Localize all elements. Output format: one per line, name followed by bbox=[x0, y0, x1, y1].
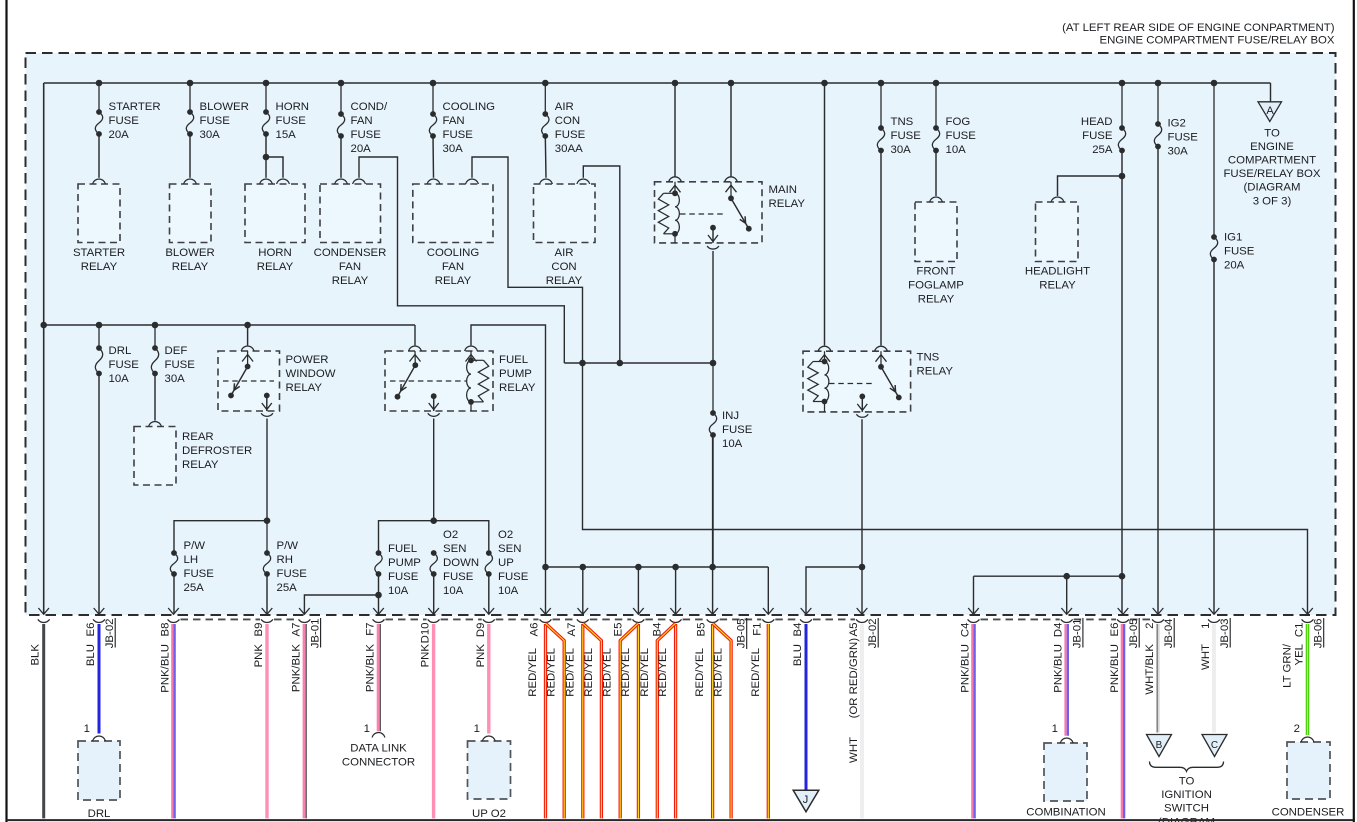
svg-text:UP O2: UP O2 bbox=[472, 808, 506, 820]
svg-text:PNK: PNK bbox=[475, 644, 487, 668]
svg-text:1: 1 bbox=[474, 723, 480, 735]
svg-text:30A: 30A bbox=[443, 143, 464, 155]
svg-text:WHT: WHT bbox=[848, 737, 860, 763]
svg-text:JB-05: JB-05 bbox=[1128, 619, 1140, 649]
svg-text:RED/YEL: RED/YEL bbox=[694, 648, 706, 697]
svg-text:B5: B5 bbox=[696, 623, 708, 637]
svg-text:10A: 10A bbox=[388, 585, 409, 597]
svg-text:FAN: FAN bbox=[443, 115, 465, 127]
svg-text:STARTER: STARTER bbox=[109, 101, 161, 113]
svg-text:TNS: TNS bbox=[891, 116, 914, 128]
svg-text:JB-02: JB-02 bbox=[104, 619, 116, 649]
svg-text:JB-05: JB-05 bbox=[736, 619, 748, 649]
svg-text:1: 1 bbox=[364, 723, 370, 735]
svg-text:25A: 25A bbox=[277, 582, 298, 594]
svg-text:CON: CON bbox=[555, 115, 580, 127]
svg-text:FRONT: FRONT bbox=[916, 265, 955, 277]
svg-text:CONNECTOR: CONNECTOR bbox=[342, 757, 415, 769]
svg-text:3 OF 3): 3 OF 3) bbox=[1253, 195, 1292, 207]
svg-text:DEFROSTER: DEFROSTER bbox=[182, 445, 252, 457]
svg-text:HEAD: HEAD bbox=[1081, 116, 1113, 128]
svg-text:DRL: DRL bbox=[109, 345, 132, 357]
svg-text:ENGINE COMPARTMENT FUSE/RELAY: ENGINE COMPARTMENT FUSE/RELAY BOX bbox=[1099, 35, 1334, 47]
svg-text:A7: A7 bbox=[290, 623, 302, 637]
svg-text:REAR: REAR bbox=[182, 431, 214, 443]
svg-text:RED/YEL: RED/YEL bbox=[657, 648, 669, 697]
svg-text:RELAY: RELAY bbox=[182, 459, 219, 471]
svg-text:(OR RED/GRN): (OR RED/GRN) bbox=[848, 638, 860, 719]
svg-text:B4: B4 bbox=[792, 623, 804, 637]
svg-text:10A: 10A bbox=[443, 585, 464, 597]
svg-text:TO: TO bbox=[1179, 776, 1195, 788]
svg-text:COMBINATION: COMBINATION bbox=[1026, 807, 1106, 819]
svg-text:PNK: PNK bbox=[420, 644, 432, 668]
svg-text:FUEL: FUEL bbox=[499, 354, 528, 366]
svg-text:SEN: SEN bbox=[498, 543, 521, 555]
svg-text:30A: 30A bbox=[200, 129, 221, 141]
svg-text:RED/YEL: RED/YEL bbox=[750, 648, 762, 697]
svg-text:RELAY: RELAY bbox=[546, 275, 583, 287]
svg-text:FUSE: FUSE bbox=[165, 359, 196, 371]
svg-text:RELAY: RELAY bbox=[1039, 279, 1076, 291]
svg-text:D10: D10 bbox=[420, 623, 432, 644]
svg-text:FAN: FAN bbox=[351, 115, 373, 127]
svg-text:COMPARTMENT: COMPARTMENT bbox=[1228, 155, 1316, 167]
svg-text:2: 2 bbox=[1294, 723, 1300, 735]
svg-text:RED/YEL: RED/YEL bbox=[602, 648, 614, 697]
svg-text:RELAY: RELAY bbox=[435, 275, 472, 287]
svg-text:BLU: BLU bbox=[792, 644, 804, 666]
svg-text:RELAY: RELAY bbox=[81, 261, 118, 273]
svg-text:HEADLIGHT: HEADLIGHT bbox=[1025, 265, 1090, 277]
svg-text:A5: A5 bbox=[848, 623, 860, 637]
svg-text:SWITCH: SWITCH bbox=[1164, 803, 1209, 815]
svg-text:COOLING: COOLING bbox=[427, 247, 480, 259]
svg-text:BLOWER: BLOWER bbox=[200, 101, 249, 113]
svg-text:UP: UP bbox=[498, 557, 514, 569]
svg-text:FUSE: FUSE bbox=[200, 115, 231, 127]
svg-text:CONDENSER: CONDENSER bbox=[314, 247, 387, 259]
svg-text:FAN: FAN bbox=[339, 261, 361, 273]
svg-text:RELAY: RELAY bbox=[172, 261, 209, 273]
svg-text:FAN: FAN bbox=[442, 261, 464, 273]
svg-text:FUSE: FUSE bbox=[443, 571, 474, 583]
svg-text:WHT/BLK: WHT/BLK bbox=[1144, 644, 1156, 695]
svg-text:WINDOW: WINDOW bbox=[286, 368, 336, 380]
svg-text:RED/YEL: RED/YEL bbox=[527, 648, 539, 697]
svg-text:FUSE: FUSE bbox=[722, 424, 753, 436]
svg-text:POWER: POWER bbox=[286, 354, 329, 366]
svg-text:RELAY: RELAY bbox=[499, 382, 536, 394]
svg-text:STARTER: STARTER bbox=[73, 247, 125, 259]
svg-text:JB-02: JB-02 bbox=[867, 619, 879, 649]
svg-text:JB-03: JB-03 bbox=[1219, 619, 1231, 649]
svg-text:B4: B4 bbox=[652, 623, 664, 637]
svg-text:25A: 25A bbox=[1092, 144, 1113, 156]
svg-text:JB-01: JB-01 bbox=[309, 619, 321, 649]
svg-text:1: 1 bbox=[1052, 723, 1058, 735]
svg-text:C1: C1 bbox=[1294, 623, 1306, 638]
svg-text:BLOWER: BLOWER bbox=[165, 247, 214, 259]
svg-text:PNK/BLU: PNK/BLU bbox=[160, 644, 172, 693]
svg-text:DEF: DEF bbox=[165, 345, 188, 357]
svg-text:JB-01: JB-01 bbox=[1072, 619, 1084, 649]
svg-text:MAIN: MAIN bbox=[769, 184, 797, 196]
svg-text:RELAY: RELAY bbox=[257, 261, 294, 273]
svg-text:B8: B8 bbox=[160, 623, 172, 637]
svg-text:A: A bbox=[1266, 105, 1274, 117]
svg-text:F1: F1 bbox=[751, 623, 763, 636]
svg-text:CON: CON bbox=[551, 261, 576, 273]
svg-text:LH: LH bbox=[184, 554, 199, 566]
svg-text:FUSE: FUSE bbox=[1168, 132, 1199, 144]
svg-text:RELAY: RELAY bbox=[917, 366, 954, 378]
svg-text:AIR: AIR bbox=[555, 101, 574, 113]
svg-text:D9: D9 bbox=[475, 623, 487, 638]
svg-text:(DIAGRAM: (DIAGRAM bbox=[1244, 182, 1301, 194]
svg-text:ENGINE: ENGINE bbox=[1250, 141, 1294, 153]
svg-text:E6: E6 bbox=[1109, 623, 1121, 637]
svg-text:AIR: AIR bbox=[555, 247, 574, 259]
svg-text:10A: 10A bbox=[109, 373, 130, 385]
svg-text:PUMP: PUMP bbox=[499, 368, 532, 380]
svg-text:CONDENSER: CONDENSER bbox=[1272, 807, 1345, 819]
svg-text:RELAY: RELAY bbox=[332, 275, 369, 287]
svg-text:D4: D4 bbox=[1053, 623, 1065, 638]
svg-text:YEL: YEL bbox=[1294, 644, 1306, 666]
svg-text:BLK: BLK bbox=[30, 644, 42, 666]
svg-text:B: B bbox=[1156, 740, 1163, 751]
svg-text:A7: A7 bbox=[566, 623, 578, 637]
svg-text:FUSE: FUSE bbox=[555, 129, 586, 141]
svg-text:FUSE: FUSE bbox=[946, 130, 977, 142]
svg-text:RH: RH bbox=[277, 554, 293, 566]
svg-text:HORN: HORN bbox=[258, 247, 292, 259]
svg-text:FUSE: FUSE bbox=[184, 568, 215, 580]
svg-text:2: 2 bbox=[1144, 623, 1156, 629]
svg-text:20A: 20A bbox=[1224, 260, 1245, 272]
svg-text:P/W: P/W bbox=[184, 540, 206, 552]
svg-text:HORN: HORN bbox=[276, 101, 310, 113]
svg-text:DRL: DRL bbox=[88, 808, 111, 820]
svg-text:J: J bbox=[803, 794, 809, 806]
svg-text:C4: C4 bbox=[960, 623, 972, 638]
svg-text:FOG: FOG bbox=[946, 116, 971, 128]
svg-text:RELAY: RELAY bbox=[918, 293, 955, 305]
svg-text:TNS: TNS bbox=[917, 352, 940, 364]
svg-text:JB-04: JB-04 bbox=[1163, 619, 1175, 649]
svg-text:RED/YEL: RED/YEL bbox=[620, 648, 632, 697]
svg-text:1: 1 bbox=[1200, 623, 1212, 629]
svg-text:30A: 30A bbox=[165, 373, 186, 385]
svg-text:LT GRN/: LT GRN/ bbox=[1282, 643, 1294, 688]
svg-text:10A: 10A bbox=[498, 585, 519, 597]
svg-text:20A: 20A bbox=[109, 129, 130, 141]
svg-text:1: 1 bbox=[84, 723, 90, 735]
svg-text:WHT: WHT bbox=[1200, 644, 1212, 670]
svg-text:P/W: P/W bbox=[277, 540, 299, 552]
svg-text:E5: E5 bbox=[612, 623, 624, 637]
svg-text:FUSE: FUSE bbox=[276, 115, 307, 127]
svg-text:FUSE: FUSE bbox=[109, 115, 140, 127]
svg-text:10A: 10A bbox=[946, 144, 967, 156]
svg-text:20A: 20A bbox=[351, 143, 372, 155]
svg-text:RED/YEL: RED/YEL bbox=[546, 648, 558, 697]
svg-text:IGNITION: IGNITION bbox=[1161, 789, 1212, 801]
svg-text:IG2: IG2 bbox=[1168, 118, 1186, 130]
svg-text:O2: O2 bbox=[498, 529, 513, 541]
svg-text:JB-06: JB-06 bbox=[1313, 619, 1325, 649]
svg-text:DATA LINK: DATA LINK bbox=[350, 743, 407, 755]
svg-text:A6: A6 bbox=[529, 623, 541, 637]
svg-text:FUSE: FUSE bbox=[351, 129, 382, 141]
svg-text:FUSE: FUSE bbox=[109, 359, 140, 371]
svg-text:FUSE: FUSE bbox=[498, 571, 529, 583]
svg-text:RED/YEL: RED/YEL bbox=[713, 648, 725, 697]
svg-text:PNK/BLU: PNK/BLU bbox=[960, 644, 972, 693]
svg-text:FUSE: FUSE bbox=[1224, 246, 1255, 258]
svg-text:PNK/BLK: PNK/BLK bbox=[290, 644, 302, 693]
svg-text:PNK/BLU: PNK/BLU bbox=[1053, 644, 1065, 693]
svg-text:PNK/BLK: PNK/BLK bbox=[365, 644, 377, 693]
svg-text:25A: 25A bbox=[184, 582, 205, 594]
svg-text:PUMP: PUMP bbox=[388, 557, 421, 569]
svg-text:PNK/BLU: PNK/BLU bbox=[1109, 644, 1121, 693]
svg-text:F7: F7 bbox=[365, 623, 377, 636]
svg-text:30A: 30A bbox=[1168, 146, 1189, 158]
svg-text:30AA: 30AA bbox=[555, 143, 583, 155]
svg-text:30A: 30A bbox=[891, 144, 912, 156]
svg-text:SEN: SEN bbox=[443, 543, 466, 555]
svg-text:TO: TO bbox=[1264, 127, 1280, 139]
svg-text:FUSE: FUSE bbox=[1082, 130, 1113, 142]
svg-text:FUSE: FUSE bbox=[443, 129, 474, 141]
svg-text:FUSE: FUSE bbox=[891, 130, 922, 142]
svg-text:(AT LEFT REAR SIDE OF ENGINE C: (AT LEFT REAR SIDE OF ENGINE CONPARTMENT… bbox=[1062, 22, 1335, 34]
svg-text:PNK: PNK bbox=[253, 644, 265, 668]
svg-text:B9: B9 bbox=[253, 623, 265, 637]
svg-text:RED/YEL: RED/YEL bbox=[583, 648, 595, 697]
svg-text:FUSE: FUSE bbox=[277, 568, 308, 580]
svg-text:DOWN: DOWN bbox=[443, 557, 479, 569]
svg-text:FUEL: FUEL bbox=[388, 543, 417, 555]
svg-text:15A: 15A bbox=[276, 129, 297, 141]
svg-text:FUSE: FUSE bbox=[388, 571, 419, 583]
svg-text:BLU: BLU bbox=[85, 644, 97, 666]
svg-text:RED/YEL: RED/YEL bbox=[639, 648, 651, 697]
svg-text:E6: E6 bbox=[85, 623, 97, 637]
svg-text:FOGLAMP: FOGLAMP bbox=[908, 279, 964, 291]
svg-text:INJ: INJ bbox=[722, 410, 739, 422]
svg-text:IG1: IG1 bbox=[1224, 232, 1242, 244]
svg-text:10A: 10A bbox=[722, 438, 743, 450]
svg-text:COOLING: COOLING bbox=[443, 101, 496, 113]
svg-text:C: C bbox=[1211, 740, 1218, 751]
svg-text:RELAY: RELAY bbox=[769, 198, 806, 210]
svg-text:RED/YEL: RED/YEL bbox=[564, 648, 576, 697]
svg-text:RELAY: RELAY bbox=[286, 382, 323, 394]
svg-text:COND/: COND/ bbox=[351, 101, 389, 113]
svg-text:FUSE/RELAY BOX: FUSE/RELAY BOX bbox=[1223, 168, 1320, 180]
svg-text:O2: O2 bbox=[443, 529, 458, 541]
